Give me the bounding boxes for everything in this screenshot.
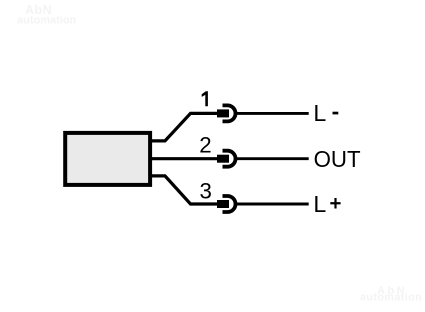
connector 2 plug pin	[217, 155, 229, 163]
label plus (pin 3)	[330, 198, 340, 209]
sensor box	[65, 133, 150, 185]
connector 3 plug pin	[217, 200, 229, 208]
connector 3 socket arc	[223, 196, 236, 212]
wire 1 (box to connector 1)	[151, 113, 218, 140]
watermark top-left	[17, 3, 77, 26]
svg-text:3: 3	[200, 179, 212, 204]
wire from connector 1 to label L-	[237, 112, 309, 115]
svg-text:automation: automation	[360, 292, 422, 304]
svg-text:L: L	[313, 191, 326, 217]
wire 2 (box to connector 2)	[151, 157, 218, 160]
pin number 1	[202, 91, 208, 106]
wire from connector 2 to label OUT	[237, 157, 309, 160]
watermark bottom-right	[360, 285, 422, 304]
connector 1 plug pin	[217, 109, 229, 117]
svg-text:L: L	[313, 100, 326, 126]
wire from connector 3 to label L+	[237, 203, 309, 206]
connector 2 socket arc	[223, 151, 236, 167]
svg-text:automation: automation	[17, 14, 77, 26]
svg-text:2: 2	[199, 133, 211, 158]
label minus (pin 1)	[333, 112, 339, 115]
svg-text:OUT: OUT	[314, 146, 361, 172]
wire 3 (box to connector 3)	[151, 176, 218, 204]
connector 1 socket arc	[223, 105, 236, 121]
